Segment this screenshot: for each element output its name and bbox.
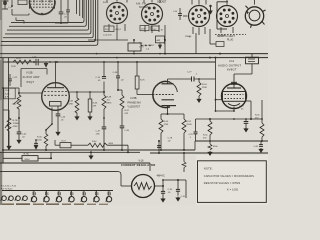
shield bracket at V-13 <box>217 2 228 29</box>
resistor R-51 <box>203 119 212 142</box>
tube V-15B envelope <box>153 82 178 108</box>
resistor R-55 right edge <box>255 100 264 141</box>
rail y163 <box>0 163 150 171</box>
resistor R-44 1200 <box>37 134 48 151</box>
switch SW-1 <box>45 121 53 134</box>
bottom cut-off caption <box>2 203 108 205</box>
label V-15B PHASE INV <box>128 97 142 108</box>
SELECT-O-JECT plug <box>245 0 265 28</box>
tube V-15A grids <box>44 92 67 96</box>
tube V-14 grid box <box>223 92 246 102</box>
tube V-14 envelope <box>222 84 247 109</box>
tone control R-7B <box>5 110 19 141</box>
capacitor C-50 top <box>173 8 182 20</box>
resistor R-57 box <box>55 140 78 148</box>
junction dots on bus <box>94 39 221 59</box>
tube socket V-12 <box>183 0 210 38</box>
tube V-15A envelope <box>42 83 70 111</box>
plug label <box>215 35 246 42</box>
volume control R-42 <box>4 88 21 118</box>
capacitor C-15 <box>55 0 70 24</box>
tube V-14 plate <box>227 64 252 88</box>
capacitor C-78 label <box>168 138 173 143</box>
terminal loops P-1..P-12 <box>1 191 113 202</box>
resistor R-44b horizontal <box>78 141 128 153</box>
tube V-16 type label <box>157 175 165 178</box>
capacitor C-43 upper-left <box>8 74 18 86</box>
phono arrow on rail <box>44 61 51 67</box>
bus wire lower <box>0 57 268 59</box>
tube V-15B cathode leads <box>161 113 184 119</box>
resistor R-41 <box>11 58 32 68</box>
tube V-15A plate <box>47 61 64 88</box>
tube V-14 grid lead <box>215 99 222 101</box>
notes box <box>198 161 267 203</box>
B+ rail <box>3 61 216 63</box>
notes text <box>204 166 254 191</box>
wire y119 bottom of output <box>196 118 263 120</box>
capacitor C-77 coupling <box>187 72 198 82</box>
capacitor C-51 with arrow <box>34 139 38 149</box>
resistor R-54 grid leak <box>197 78 207 102</box>
terminal marks under V-11 <box>139 43 151 49</box>
CAL-INPUT jack <box>88 33 155 54</box>
output transformer T-2 <box>246 54 259 64</box>
capacitor C-76 <box>95 62 106 92</box>
label V-15B AUDIO AMP <box>23 72 40 84</box>
tube V-16 leads <box>121 185 164 187</box>
resistor R-47 <box>117 89 130 118</box>
left border rail <box>3 58 9 163</box>
antenna block <box>156 33 197 54</box>
label box V-15B <box>21 69 47 88</box>
wiring harness nested leads <box>1 0 98 45</box>
tube V-15B plate <box>162 79 216 84</box>
wires to left rail <box>2 87 19 149</box>
label CURRENT REGULATOR <box>121 159 155 166</box>
capacitor on x159 <box>157 140 161 154</box>
tube V-15B cathode <box>162 100 177 114</box>
resistor R-46 <box>88 92 98 120</box>
wire V-9 to left components <box>12 9 29 24</box>
capacitor C-48 <box>113 62 125 90</box>
label P-1 TO P-12 <box>1 185 17 190</box>
ground rail y150 <box>2 149 195 151</box>
capacitor C-78b <box>188 119 197 141</box>
socket header text <box>157 1 167 3</box>
wire socket V-12 down <box>210 29 224 47</box>
rail y141 right <box>195 140 268 150</box>
labels under socket V-10 <box>103 26 122 36</box>
wire y111 <box>215 57 235 112</box>
label V-14 AUDIO OUTPUT <box>218 60 241 71</box>
resistor R-50 <box>159 119 169 151</box>
resistor R-7A <box>3 152 52 161</box>
tube socket V-13 <box>217 0 238 37</box>
capacitor C-44 <box>56 114 66 135</box>
capacitor C-42 <box>17 117 27 143</box>
terminal cluster top-left corner <box>2 0 27 9</box>
tube V-16 filament <box>134 183 152 190</box>
harness leads to socket V-10 <box>77 0 83 18</box>
resistor R-76 <box>135 62 145 95</box>
capacitor C-81 right <box>254 141 263 152</box>
tube socket V-11 <box>136 0 163 33</box>
tube V-15B grid <box>137 94 175 96</box>
tube V-15A grid lead <box>18 92 42 94</box>
tube socket V-10 <box>103 0 128 33</box>
resistor R-56 with ground <box>208 141 218 155</box>
resistor R-43 <box>68 92 79 120</box>
bus wire upper <box>0 53 268 55</box>
wire y152 left <box>0 151 140 153</box>
capacitor C-49 <box>103 118 130 151</box>
resistor R-48 <box>102 92 112 118</box>
wire under socket V-11 <box>164 25 166 54</box>
labels under socket V-11 <box>140 26 164 32</box>
capacitor C-79 <box>239 105 248 131</box>
rail junction dots <box>8 61 139 63</box>
regulator right network <box>161 179 186 202</box>
plate wire from V-15A <box>69 91 105 93</box>
tube V-9 envelope (cropped at top edge) <box>29 0 55 15</box>
tube V-15A cathode box <box>50 102 62 122</box>
wiper arrow between V-12 and V-13 <box>209 5 212 14</box>
resistor R-52 <box>182 114 192 151</box>
tube V-14 cathode <box>228 103 240 111</box>
rail y172 <box>0 172 121 186</box>
tube V-16 envelope <box>132 175 155 198</box>
capacitor C-47 <box>96 117 107 150</box>
resistor on x184 <box>182 152 186 172</box>
rail y153 right <box>150 152 268 154</box>
ground at x91 <box>89 151 93 159</box>
tube V-14 plate lead right <box>246 101 252 119</box>
capacitor C-46 series <box>32 56 38 65</box>
